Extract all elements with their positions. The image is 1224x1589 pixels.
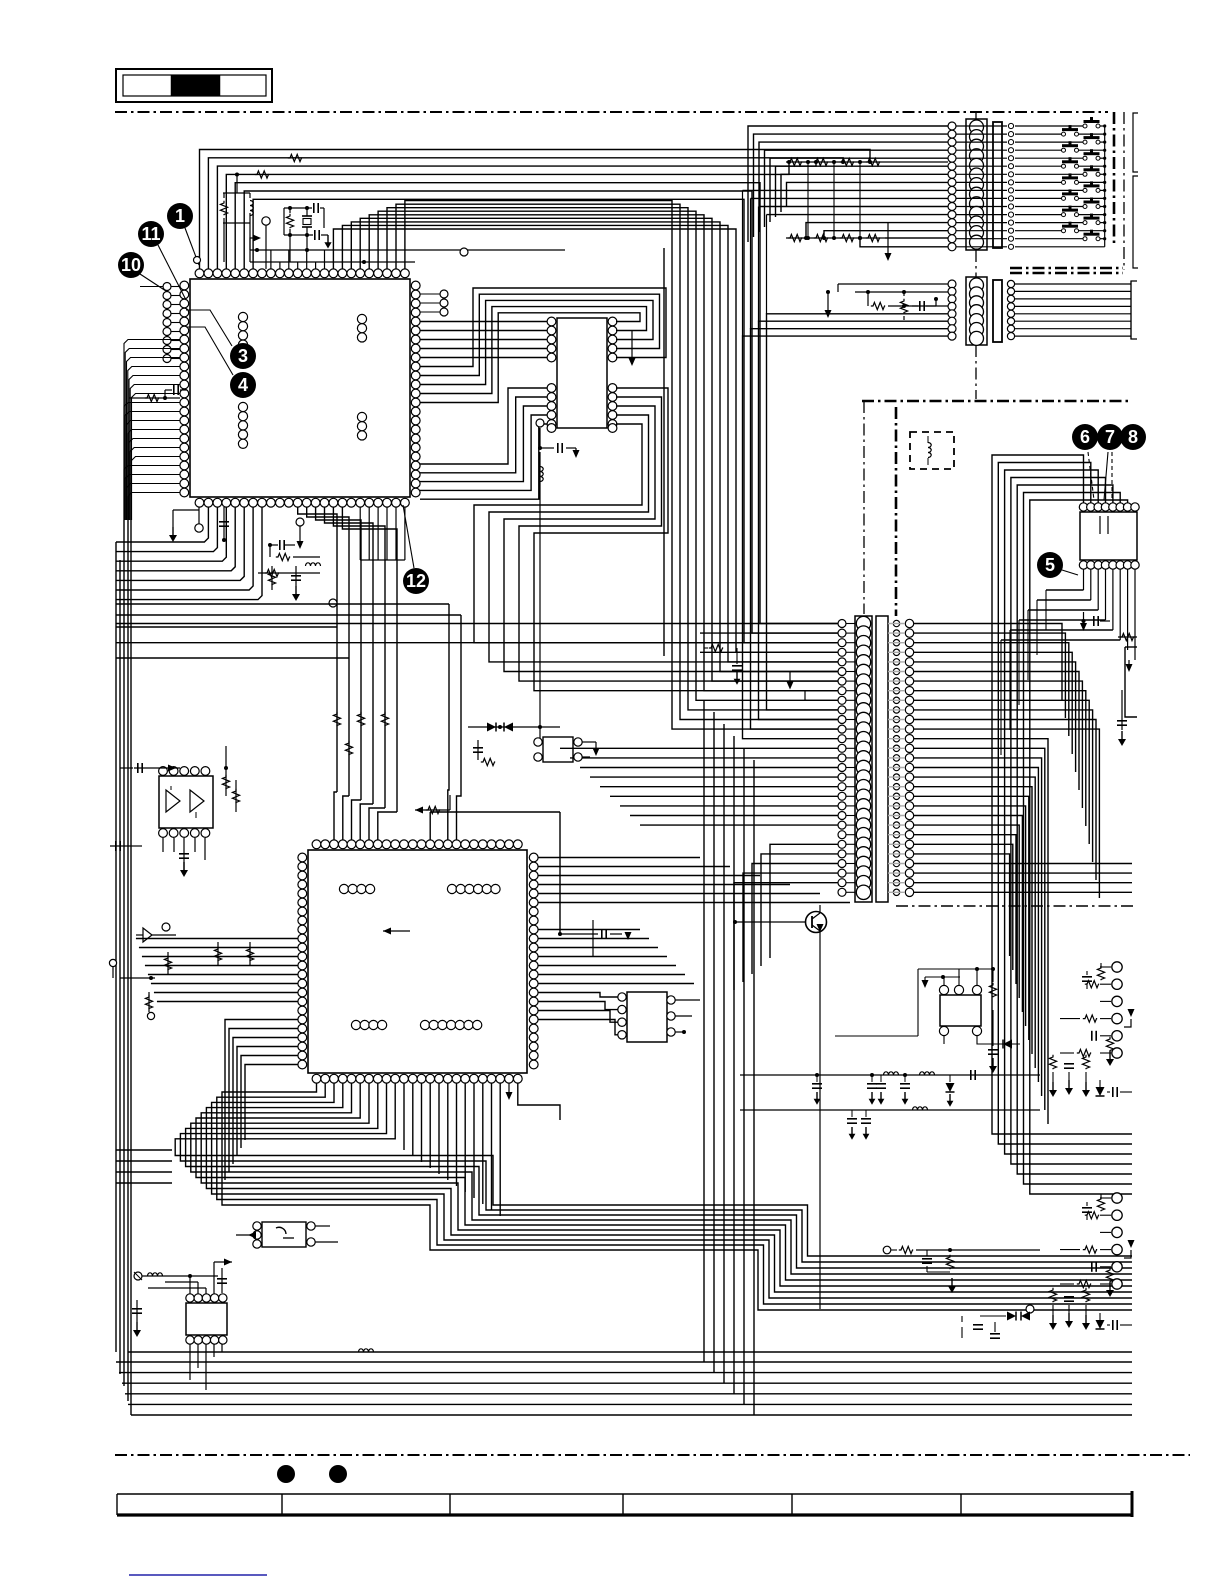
test point circle above U1 [262, 217, 270, 225]
svg-text:5: 5 [1045, 555, 1055, 575]
connector CN2 mating bar [993, 280, 1002, 342]
callout 6 leader dashed [1088, 452, 1094, 500]
U2 bypass capacitor [539, 428, 541, 448]
CN5 bottom wiring [190, 1344, 222, 1390]
U2 right pins [608, 317, 617, 432]
IC U1 internal pads [238, 312, 366, 448]
CN2 output wires [1015, 281, 1137, 339]
continuation bracket top right [1133, 176, 1138, 268]
callout 7 [1097, 424, 1123, 450]
left mid rc details [0, 0, 1, 1]
U5 surrounding wires [120, 746, 240, 877]
ground below U3 [508, 1083, 510, 1095]
CN3 internal stubs with grounds [787, 672, 839, 701]
wire verticals center page [663, 248, 665, 656]
IC U6 driver right of U3 [618, 992, 700, 1042]
connector CN5 body [186, 1294, 227, 1344]
wires CN1 to pads [956, 126, 1007, 247]
callout 8 partial [1120, 424, 1146, 450]
wire bundle U3 bottom straight down [404, 1083, 500, 1216]
callout 10 [118, 252, 144, 278]
svg-text:12: 12 [406, 571, 426, 591]
border dash-dot horizontal y401 [862, 400, 1131, 403]
crystal network above U1 [284, 203, 332, 262]
pin1 marker circle [194, 257, 201, 264]
connector CN4 pads outer [905, 619, 913, 896]
resistor-cap leg below U1 [268, 566, 301, 601]
callout 12 [403, 568, 429, 594]
key matrix input pads [1008, 123, 1013, 249]
callout 6 [1072, 424, 1098, 450]
transistor group B [1060, 1193, 1135, 1297]
footer dot 1 [277, 1465, 295, 1483]
callout 12 leader [403, 505, 414, 568]
IC U1 left pins [180, 281, 189, 497]
test point circle above U2 [460, 248, 468, 256]
resistor-capacitor on U1 left [129, 385, 187, 402]
diode cap cluster U8 right [988, 1010, 1020, 1073]
wire U3 bottom right pins [518, 1083, 560, 1120]
connector CN4 bar [876, 616, 888, 902]
callout 11 leader [158, 245, 186, 300]
left-to-U3-region horizontals y600 [116, 604, 461, 658]
wire stubs U1 top middle pins [271, 250, 325, 269]
capacitor near CN3 left [704, 644, 742, 684]
border dash-dot top [115, 111, 1108, 113]
CN6 internal stubs [1099, 516, 1101, 534]
CN3 pad stubs [846, 624, 855, 893]
svg-text:3: 3 [238, 346, 248, 366]
callout 11 [138, 221, 164, 247]
wire bundle CN6 top loop to corridor [992, 455, 1128, 884]
wire top pins join buses [250, 248, 565, 264]
U3 bottom pins [312, 1074, 522, 1083]
test point below U1 [195, 524, 203, 532]
logo box [116, 69, 272, 102]
CN6 cap ground [1080, 612, 1110, 631]
Q1 emitter wire [819, 932, 821, 1309]
U2 inductor leg [539, 452, 541, 740]
connector CN6 body [1080, 512, 1137, 560]
transistor array U8 [835, 967, 997, 1044]
svg-text:4: 4 [238, 375, 248, 395]
border dash-dot x864 drop [863, 401, 865, 614]
wire long horizontal inductor line [128, 1349, 1132, 1352]
U3 right pins [529, 853, 538, 1069]
border key panel thin vertical [1123, 112, 1125, 270]
wire bundle IC1 top inner group to middle corridor [333, 201, 838, 730]
wire bundle CN3 lower rows from left components [734, 844, 838, 990]
callout 1 leader [185, 228, 199, 265]
IC U1 microprocessor body [190, 279, 410, 497]
filter line A below U3 [740, 1070, 1040, 1107]
connector CN4 pads inner [893, 620, 899, 895]
border dash-dot y906 right section [896, 905, 1137, 907]
ground below U1 [172, 510, 174, 527]
bottom corridor risers right [704, 700, 754, 1415]
ground stub right of U2 [631, 330, 633, 362]
connector CN1 mating bar [993, 122, 1002, 248]
CN5 top wiring [134, 1259, 232, 1295]
callout 4 leader [186, 327, 233, 375]
left edge vertical bus [116, 520, 131, 1415]
cap network above U3 mid [473, 740, 495, 766]
arrow into U1 top [250, 238, 256, 262]
wires left horizontals down to U3 top [448, 604, 461, 840]
IC U3 servo processor body [308, 850, 527, 1073]
coil caps right mid [0, 0, 1, 1]
comparator U5 body [159, 767, 213, 838]
transistor group A [1060, 962, 1135, 1066]
callout 7 leader [1104, 452, 1108, 500]
bottom-left blue rule [129, 1574, 267, 1576]
CN6 top pads [1079, 503, 1139, 511]
caps right of U3 [558, 920, 632, 957]
resistor arrow above U3 [415, 795, 450, 814]
pads right of U3 small [0, 0, 1, 1]
CN3-CN4 link stubs [888, 624, 905, 893]
U3 internal pads [339, 884, 500, 1029]
resistor on bundle line above U1 [255, 171, 269, 178]
connector CN1 body [966, 119, 987, 250]
wire bundle U3 right pins out [538, 858, 850, 903]
wire bundle CN4 to right corridor [914, 624, 1099, 899]
bus above U3 right [430, 812, 560, 934]
connector CN3 left pads [838, 620, 846, 897]
U3 left pins [298, 853, 307, 1069]
border key panel bottom thick [1010, 267, 1123, 270]
chain risers [808, 162, 860, 238]
wire bundle U3 bottom nested S [175, 1083, 1132, 1310]
IC U1 outer left pin column [163, 283, 171, 363]
outer left pin column links [140, 287, 180, 359]
callout 5 leader [1062, 570, 1078, 575]
test point circle lower [329, 599, 337, 607]
callout 5 [1037, 552, 1063, 578]
wire bundle bottom long lines [116, 1362, 1132, 1415]
optocoupler U4 [534, 737, 600, 762]
filter line B below U3 [740, 1107, 1040, 1140]
transistor Q1 [733, 905, 827, 933]
wire bundle U1 left pins to left edge corridor [124, 340, 180, 521]
callout 1 [167, 203, 193, 229]
optocoupler U7 [236, 1222, 338, 1248]
border dash-dot x896 thick drop [895, 407, 898, 616]
resistor right column [1118, 636, 1137, 638]
svg-text:7: 7 [1105, 427, 1115, 447]
connector CN1 left pads [948, 122, 956, 251]
key matrix row wires [1015, 126, 1105, 247]
wires into CN1 left [743, 126, 949, 336]
callout 3 [230, 343, 256, 369]
CN2 right pads [1007, 280, 1014, 339]
callout 10 leader [140, 274, 166, 291]
detector symbols left of U3 [109, 923, 253, 1020]
resistor trio above U3 [333, 712, 388, 755]
wire bundle CN4 lower rows to right [914, 739, 1132, 1124]
IC U1 right pins [411, 281, 420, 497]
right corridor turnouts [992, 830, 1132, 1194]
border dash-dot bottom [115, 1454, 1190, 1456]
footer table [117, 1491, 1132, 1517]
wire bundle U1 bottom-mid corridor down [298, 507, 397, 812]
IC box right edge [1125, 647, 1137, 717]
wire loops over U2 top [420, 288, 666, 403]
svg-text:11: 11 [141, 224, 160, 244]
callout 4 [230, 372, 256, 398]
wire bundle CN6 bottom down [1084, 569, 1136, 660]
wires U3 right lower to U6 [538, 993, 618, 1035]
wire loops under U2 bottom [474, 388, 838, 691]
svg-text:8: 8 [1128, 427, 1138, 447]
continuation bracket top right upper [1133, 113, 1138, 172]
U1 right aux pads [420, 290, 448, 316]
callout 3 leader [186, 310, 232, 346]
cap left edge y846 [110, 845, 130, 847]
svg-text:6: 6 [1080, 427, 1090, 447]
resistor chain row2 [786, 234, 948, 241]
wires into CN2 from center corridor [743, 284, 949, 739]
dashed relay box [910, 432, 954, 469]
CN1 ground arrow [887, 222, 889, 256]
connector CN2 body [966, 277, 987, 345]
wire bundle IC1 top outer to middle corridor [235, 183, 838, 643]
IC U1 bottom pins [195, 498, 409, 507]
resistor row left of U3 [0, 0, 1, 1]
wire bundle U3 right mid [538, 930, 694, 984]
connector CN3 body [855, 616, 872, 902]
wire bundle into CN3 upper [700, 633, 838, 652]
border key panel right thick [1113, 112, 1116, 247]
relay coil symbol [928, 443, 931, 448]
wire bundle into U2 lower-left pins [420, 388, 547, 499]
svg-text:10: 10 [121, 255, 141, 275]
wire bundle into CN3 mid [560, 748, 838, 825]
svg-text:1: 1 [175, 206, 185, 226]
IC U2 serial eeprom body [557, 318, 607, 428]
cap right column 2 [1121, 690, 1123, 730]
U2 left pins [547, 317, 556, 432]
U3 top pins [312, 840, 522, 849]
capacitor cluster below U1 right [258, 518, 321, 577]
wire bundle lower-left corridor to U3 [225, 1020, 298, 1181]
group B lower parts [1049, 1288, 1132, 1330]
border dash-dot spine x976 [975, 112, 977, 119]
wire bundle IC1 top outer to key matrix chains [200, 150, 873, 270]
connector CN2 left pads [948, 280, 956, 340]
diode pair above U3 [468, 723, 560, 732]
arrow stub left of U3 top [383, 928, 391, 935]
capacitor below U1 [223, 507, 225, 540]
filter line y1050 [0, 0, 1, 1]
rc line mid bottom [883, 1246, 1040, 1293]
resistor chain row1 [786, 158, 948, 165]
group A lower parts [1049, 1055, 1132, 1097]
IC U1 top pins [195, 269, 409, 278]
CN6 bottom pads [1079, 561, 1139, 569]
wire bundle corridor into U3 top [334, 792, 397, 840]
border key panel bottom thick second [1010, 272, 1123, 275]
wire bundle left edge to U3 left [136, 939, 298, 1002]
resistor-inductor pair above U1 [220, 173, 253, 263]
wire bundle U1 right to U2 left (upper direct) [420, 322, 547, 358]
wire bundle U1 bottom-left pins to left edge [116, 507, 262, 600]
CN6 bottom fan left [1001, 590, 1120, 755]
wire bundle U1 bottom-right component stubs [360, 507, 405, 560]
CN2 rc network [825, 290, 949, 320]
filter components y1310-1340 [962, 1305, 1034, 1338]
bottom mid horizontals [116, 1150, 172, 1183]
footer dot 2 [329, 1465, 347, 1483]
CN5 cap ground leg [132, 1300, 142, 1337]
long horizontals into CN3 rows [116, 624, 838, 643]
key switches [1062, 117, 1107, 247]
